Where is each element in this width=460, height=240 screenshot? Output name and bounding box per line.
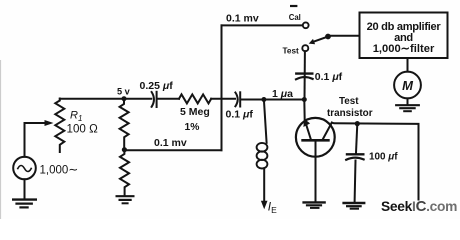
resistor divider lower: [120, 150, 129, 196]
ground 100uf: [344, 203, 365, 209]
svg-text:100 Ω: 100 Ω: [67, 123, 99, 136]
wire base to ground: [315, 140, 317, 201]
label 0.1 mv mid: [154, 137, 187, 149]
terminal Cal: [303, 22, 309, 28]
svg-text:transistor: transistor: [327, 108, 373, 119]
svg-text:0.1 mv: 0.1 mv: [226, 12, 259, 24]
svg-text:0.1 μf: 0.1 μf: [315, 71, 343, 83]
label 100 ohm: [67, 123, 99, 136]
wire node to C4: [356, 124, 357, 153]
meter M1: [394, 72, 421, 99]
svg-text:Test: Test: [339, 96, 359, 107]
wire cal rail top horizontal: [222, 24, 303, 26]
svg-text:M: M: [402, 78, 414, 93]
svg-text:0.1 μf: 0.1 μf: [226, 109, 254, 121]
arrow IE current: [261, 201, 268, 209]
label Cal: [289, 13, 301, 22]
transistor Q1: [296, 118, 335, 157]
wire inductor to IE arrow: [263, 168, 265, 203]
resistor divider upper: [120, 99, 129, 148]
node inductor junction dot: [261, 97, 266, 102]
label Test switch: [283, 47, 299, 56]
label 5 v: [117, 86, 131, 96]
wire box to meter: [407, 58, 409, 72]
svg-text:100 μf: 100 μf: [369, 152, 398, 163]
node emitter junction dot: [302, 97, 307, 102]
wire collector rail: [332, 123, 419, 200]
svg-text:Test: Test: [283, 47, 299, 56]
resistor 5 Meg 1%: [179, 94, 211, 103]
svg-text:0.25 μf: 0.25 μf: [140, 80, 174, 92]
svg-text:R1: R1: [70, 110, 82, 124]
label 1 ua: [272, 88, 293, 100]
capacitor C2 0.1uf series: [235, 92, 240, 106]
label 5 Meg: [180, 106, 210, 118]
label and: [394, 32, 413, 44]
ground divider: [117, 196, 134, 203]
wire switch to amplifier box: [328, 35, 360, 37]
label 1,000~filter: [373, 43, 435, 55]
capacitor C1 0.25uf: [152, 92, 157, 107]
svg-text:0.1 mv: 0.1 mv: [154, 137, 187, 149]
svg-text:IE: IE: [268, 200, 277, 216]
node 5v junction dot: [122, 96, 127, 101]
emitter arrow Q1: [303, 119, 310, 127]
scan dash artifact top: [290, 5, 297, 7]
wire inductor branch: [264, 100, 267, 143]
svg-text:5 Meg: 5 Meg: [180, 106, 210, 118]
wire C4 to ground: [354, 161, 357, 202]
node divider mid dot: [122, 147, 127, 152]
label 100 uf: [369, 152, 398, 163]
svg-text:1 μa: 1 μa: [272, 88, 293, 100]
capacitor C4 100uf: [346, 154, 363, 160]
wire cal rail vertical: [221, 25, 223, 150]
svg-text:1,000∼filter: 1,000∼filter: [373, 43, 435, 55]
watermark SeekIC.com: [381, 198, 457, 215]
ground generator: [13, 200, 36, 208]
label 0.1 uf series: [226, 109, 254, 121]
inductor L1: [257, 143, 268, 169]
label IE: [268, 200, 277, 216]
wire 0.1mv stub horizontal: [124, 149, 221, 151]
wire Test terminal to C3: [304, 51, 306, 99]
wiper arrow into R1: [45, 120, 54, 126]
wire generator top to wiper corner: [25, 123, 46, 157]
label 20 db amplifier: [367, 21, 442, 33]
switch arm S1: [309, 34, 331, 45]
wire cap to emitter node: [241, 99, 304, 101]
wire main rail left (R1 top to 0.25uf): [60, 98, 152, 100]
label 1%: [185, 122, 200, 133]
svg-text:Cal: Cal: [289, 13, 301, 22]
label 0.1 mv top: [226, 12, 259, 24]
wire generator bottom to ground: [24, 179, 26, 199]
wire cap to 5Meg: [158, 98, 180, 100]
wire 5Meg to 0.1uf cap: [211, 98, 235, 100]
ground transistor: [304, 202, 325, 208]
svg-text:1%: 1%: [185, 122, 200, 133]
node 100uf junction dot: [355, 121, 360, 126]
label 1,000~: [40, 163, 79, 177]
amplifier box U1: [360, 13, 448, 59]
resistor R1 100 ohm potentiometer: [55, 99, 64, 153]
generator V1 1,000~: [13, 157, 36, 180]
scan edge artifact left: [0, 60, 1, 219]
label R1: [70, 110, 82, 124]
capacitor C3 0.1uf coupling: [296, 74, 313, 80]
label 0.25 uf: [140, 80, 174, 92]
svg-text:5 v: 5 v: [117, 86, 131, 96]
label 0.1 uf coupling: [315, 71, 343, 83]
wire emitter node to Q1: [303, 100, 305, 121]
svg-text:SeekIC.com: SeekIC.com: [381, 198, 457, 215]
label Test transistor: [327, 96, 373, 119]
svg-text:1,000∼: 1,000∼: [40, 163, 79, 177]
svg-text:20 db amplifier: 20 db amplifier: [367, 21, 442, 33]
ground meter: [396, 105, 419, 111]
terminal Test: [302, 45, 308, 51]
wire meter to ground: [407, 98, 409, 104]
